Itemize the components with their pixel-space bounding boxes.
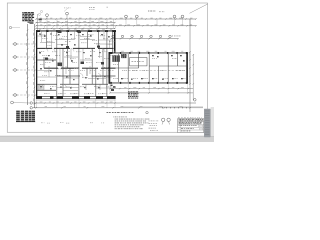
top dimension chain line D (left half) xyxy=(35,28,115,29)
left building extra thin partitions xyxy=(37,31,113,90)
top dimension chain line C xyxy=(35,25,196,27)
chain left-end details xyxy=(37,13,42,30)
grid bubbles above top chains xyxy=(46,12,184,19)
small text under bubbles xyxy=(149,120,150,123)
stair core at junction xyxy=(112,55,120,61)
dark blob clusters xyxy=(45,31,104,66)
title block xyxy=(178,119,204,133)
wing lower chain 1 xyxy=(109,87,193,89)
sheet background xyxy=(0,0,214,142)
wing furniture xyxy=(121,55,185,80)
wing room labels xyxy=(113,58,185,71)
detail bubbles with leaders xyxy=(162,118,171,124)
right inner vertical dim line xyxy=(193,54,197,101)
second stair cluster xyxy=(121,54,126,58)
left building room fixtures xyxy=(39,34,110,90)
right wing bottom wall with columns xyxy=(109,82,189,84)
plan caption xyxy=(107,111,109,114)
leader diagonal top-right xyxy=(190,4,209,14)
left building outer walls xyxy=(36,30,116,99)
faint marks below detail xyxy=(40,122,43,125)
bottom chain 2 xyxy=(30,106,203,112)
sheet frame xyxy=(7,3,207,132)
wing bottom interior text xyxy=(113,77,185,80)
grid stems between chains xyxy=(47,19,190,28)
right wing end walls xyxy=(109,52,188,83)
left building room label specks xyxy=(39,35,116,95)
revision stamp block top-left xyxy=(22,12,34,24)
mini schedule block xyxy=(128,91,138,98)
small bubble left of chains xyxy=(9,26,11,28)
wing grid chain xyxy=(110,35,181,39)
hatched detail block bottom-left xyxy=(16,111,35,123)
notes block xyxy=(113,117,149,129)
bottom chain 1 xyxy=(30,102,196,105)
wing equipment rectangle xyxy=(130,58,147,66)
wing lower chain 2 xyxy=(109,92,193,93)
dense junction marks lower-right xyxy=(111,85,116,91)
dotted ticks right part of chain xyxy=(162,106,187,109)
top wall piers xyxy=(36,30,116,32)
right wing internal walls xyxy=(110,54,186,82)
scrollbar track right xyxy=(211,107,214,136)
left building internal horizontal walls xyxy=(37,48,116,68)
extension stems below walls xyxy=(37,84,188,108)
dim text above left building top wall xyxy=(39,28,41,31)
top dimension chain line A xyxy=(35,18,196,20)
faint text above title block xyxy=(178,116,180,119)
level text +4.7 xyxy=(148,10,149,13)
door arcs xyxy=(45,49,105,88)
small label boxes lower-left room xyxy=(38,85,44,90)
faint top margin annotations xyxy=(40,7,108,13)
viewer background band bottom xyxy=(0,136,214,142)
vertical gray strip (scroll thumb) xyxy=(204,109,211,137)
top dimension chain line B (left half) xyxy=(35,21,115,23)
right vertical dimension line xyxy=(189,19,190,108)
bottom wall piers xyxy=(36,96,116,99)
left building internal vertical walls xyxy=(44,31,113,97)
right wing top wall with columns xyxy=(109,52,189,54)
left grid bubbles xyxy=(11,43,36,104)
left vertical dimension line 1 xyxy=(26,24,28,105)
left vertical dimension line 2 xyxy=(33,24,35,108)
corridor dashed line xyxy=(129,70,187,72)
